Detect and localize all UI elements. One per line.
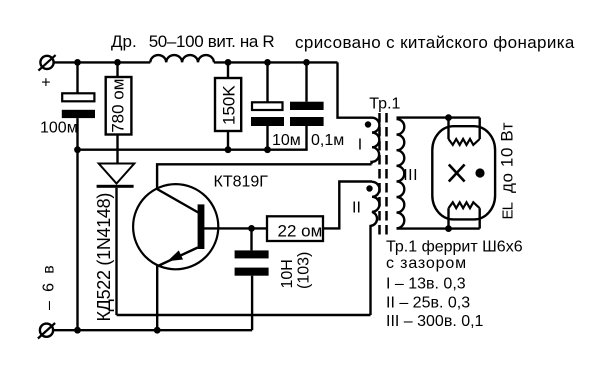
node C0.1m top (303, 59, 310, 66)
wire collector line (157, 164, 371, 190)
svg-text:с зазором: с зазором (386, 255, 467, 272)
node C10m bottom (264, 146, 271, 153)
svg-text:Тр.1: Тр.1 (369, 95, 400, 112)
wire base lead (204, 227, 267, 229)
svg-text:(103): (103) (296, 252, 313, 289)
node lamp bottom (445, 225, 452, 232)
svg-text:срисовано с китайского фонарик: срисовано с китайского фонарика (295, 33, 575, 52)
svg-text:10м: 10м (272, 132, 301, 149)
svg-text:III: III (403, 167, 418, 184)
svg-text:10Н: 10Н (279, 259, 296, 288)
lamp EL envelope (432, 126, 495, 219)
svg-text:II: II (352, 200, 361, 217)
lamp filament bottom (449, 202, 480, 228)
node R780 top (114, 59, 121, 66)
transformer T1 winding I (365, 118, 380, 165)
wire drop to transformer (338, 62, 373, 117)
svg-text:0,1м: 0,1м (311, 132, 344, 149)
transformer T1 core (380, 113, 387, 235)
wire feedback line (117, 314, 371, 316)
svg-text:КТ819Г: КТ819Г (214, 174, 269, 191)
terminal - (minus input) (38, 323, 55, 339)
lamp dot mark (475, 168, 484, 177)
wire top rail (53, 61, 150, 63)
node minus rail cap (74, 327, 81, 334)
svg-text:50–100 вит. на R: 50–100 вит. на R (149, 32, 275, 51)
node cap100 top (74, 59, 81, 66)
wire rail2 (78, 126, 307, 150)
svg-text:150K: 150K (220, 85, 239, 125)
node base / C4 (248, 225, 255, 232)
svg-text:– 6 в: – 6 в (41, 263, 58, 310)
svg-text:Др.: Др. (111, 32, 137, 51)
capacitor C1 100m electrolytic (62, 62, 95, 330)
node R150K bottom (225, 146, 232, 153)
svg-text:I – 13в. 0,3: I – 13в. 0,3 (386, 275, 466, 292)
lamp filament top (449, 118, 480, 145)
terminal + (plus input) (38, 55, 55, 71)
svg-text:III – 300в. 0,1: III – 300в. 0,1 (386, 313, 484, 330)
capacitor C4 10N (103) (235, 228, 269, 330)
lamp cross mark (449, 165, 465, 182)
node C10m top (264, 59, 271, 66)
svg-text:+: + (41, 74, 50, 91)
diode VD1 KD522 (97, 164, 135, 316)
transformer T1 winding II (366, 182, 379, 315)
node R150K top (225, 59, 232, 66)
resistor R2 150K (215, 62, 241, 149)
capacitor C2 10m electrolytic (251, 62, 284, 149)
svg-text:780 ом: 780 ом (108, 79, 127, 133)
svg-text:Тр.1 феррит Ш6х6: Тр.1 феррит Ш6х6 (386, 238, 523, 255)
svg-text:I: I (358, 136, 362, 153)
wire top rail right (214, 61, 338, 63)
svg-text:EL: EL (499, 202, 516, 219)
resistor R3 22 om (267, 182, 372, 242)
node emitter (154, 327, 161, 334)
node lamp top (445, 114, 452, 121)
resistor R1 780 om (106, 62, 132, 163)
svg-text:100м: 100м (40, 119, 78, 136)
capacitor C3 0.1m (290, 62, 324, 126)
transformer T1 winding III (397, 118, 480, 229)
svg-text:КД522 (1N4148): КД522 (1N4148) (94, 193, 114, 322)
svg-text:22 ом: 22 ом (278, 221, 323, 240)
label transformer notes (386, 238, 523, 330)
inductor Dr (Др.) (150, 55, 214, 62)
wire minus rail (53, 329, 252, 331)
node rail2 left (74, 146, 81, 153)
svg-text:II – 25в. 0,3: II – 25в. 0,3 (386, 295, 470, 312)
svg-text:до 10 Вт: до 10 Вт (498, 122, 517, 193)
transistor Q1 KT819G (133, 184, 218, 330)
